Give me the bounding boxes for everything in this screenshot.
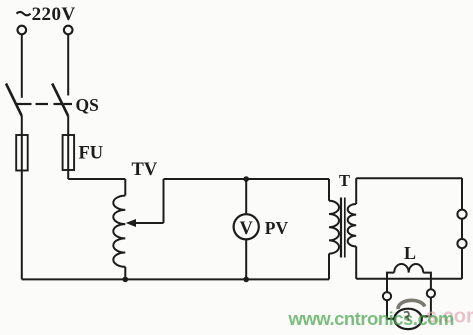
svg-text:FU: FU <box>79 143 104 163</box>
svg-text:220V: 220V <box>32 4 76 25</box>
svg-text:TV: TV <box>132 160 158 180</box>
svg-text:L: L <box>404 243 416 263</box>
svg-text:QS: QS <box>76 95 99 115</box>
svg-text:T: T <box>339 171 350 190</box>
svg-text:www.cntronics.com: www.cntronics.com <box>288 308 455 329</box>
svg-text:PV: PV <box>265 218 289 238</box>
svg-text:V: V <box>240 219 254 239</box>
